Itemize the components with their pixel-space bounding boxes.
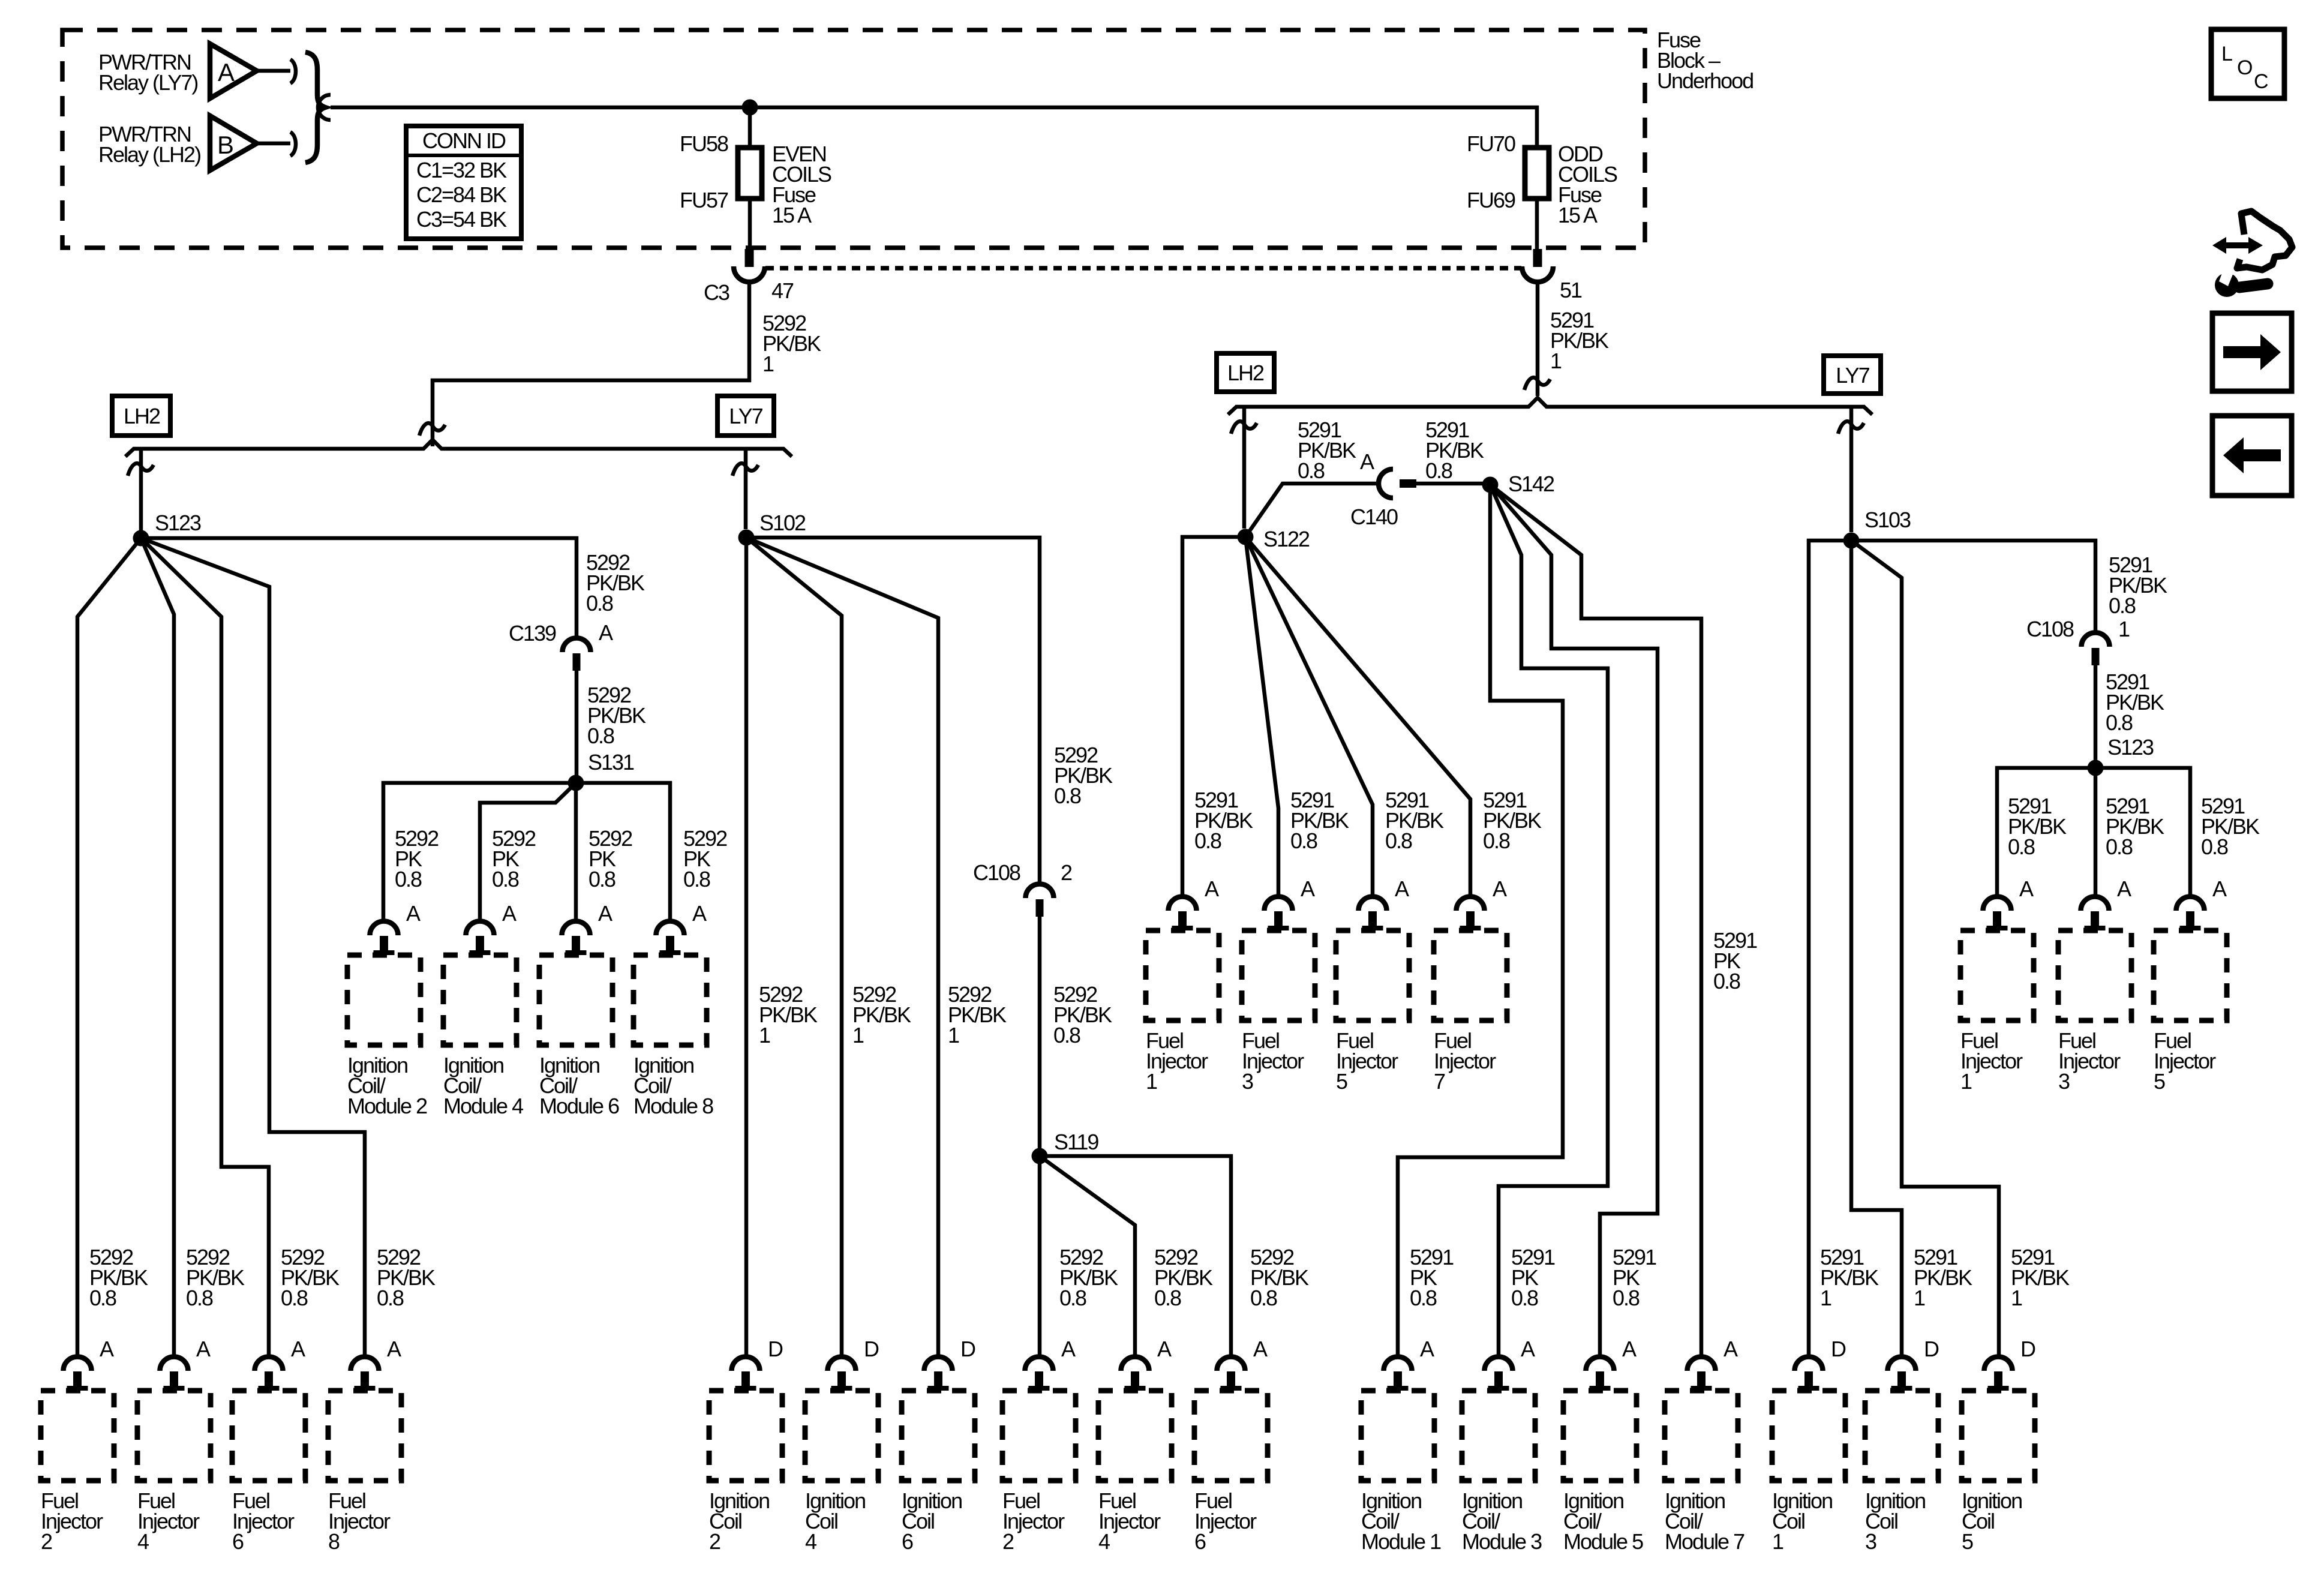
svg-text:A: A: [1205, 876, 1219, 901]
svg-text:0.8: 0.8: [1290, 828, 1317, 853]
wire S122 to C140: [1245, 484, 1379, 537]
svg-text:C3: C3: [704, 280, 729, 305]
svg-text:A: A: [1420, 1337, 1434, 1361]
ignition coil/module 2 box: [347, 955, 421, 1045]
svg-text:D: D: [2020, 1337, 2035, 1361]
svg-text:0.8: 0.8: [1250, 1286, 1277, 1310]
svg-text:A: A: [692, 901, 707, 926]
wire drop to S123: [139, 449, 143, 530]
icon LOC box: [2211, 29, 2284, 98]
svg-text:0.8: 0.8: [1154, 1286, 1181, 1310]
ignition coil 2 terminal D: [732, 1357, 760, 1391]
ignition coil/module 6 terminal A: [562, 921, 590, 955]
svg-text:A: A: [1061, 1337, 1076, 1361]
wire S102 to ignition coil 4: [746, 538, 842, 1356]
svg-text:S131: S131: [588, 750, 634, 775]
fuel injector 4 box: [137, 1391, 211, 1481]
wire S131 to ignition coil module 4: [480, 783, 576, 920]
relay B triangle: [210, 116, 257, 170]
svg-text:0.8: 0.8: [395, 867, 422, 891]
wire C139 to S131: [575, 671, 579, 777]
svg-text:Module 2: Module 2: [347, 1094, 427, 1118]
fuel injector 7 terminal A: [1457, 897, 1485, 930]
svg-text:D: D: [768, 1337, 783, 1361]
svg-text:FU69: FU69: [1467, 188, 1515, 212]
connector C3 pin 47: [734, 249, 765, 282]
svg-text:1: 1: [852, 1023, 864, 1047]
svg-text:A: A: [1724, 1337, 1738, 1361]
ignition coil 3 box: [1865, 1391, 1938, 1481]
left harness bus: [125, 440, 792, 457]
svg-text:1: 1: [1914, 1286, 1925, 1310]
fuel injector 1 right box: [1960, 930, 2034, 1020]
ignition coil 5 terminal D: [1984, 1357, 2013, 1391]
svg-text:0.8: 0.8: [492, 867, 519, 891]
svg-text:Module 5: Module 5: [1563, 1529, 1643, 1554]
svg-text:0.8: 0.8: [281, 1286, 308, 1310]
svg-text:O: O: [2237, 56, 2252, 79]
fuel injector 6 box: [232, 1391, 305, 1481]
svg-text:1: 1: [1146, 1069, 1157, 1094]
svg-text:Relay (LY7): Relay (LY7): [98, 70, 197, 95]
wire S131 to ignition coil module 6: [574, 783, 578, 920]
svg-text:0.8: 0.8: [1053, 1023, 1080, 1047]
svg-text:LH2: LH2: [1227, 361, 1264, 385]
ignition coil 1 terminal D: [1795, 1357, 1823, 1391]
svg-text:0.8: 0.8: [1385, 828, 1412, 853]
svg-text:A: A: [1493, 876, 1507, 901]
ignition coil/module 6 box: [539, 955, 612, 1045]
node S103 splice: [1843, 533, 1860, 549]
wire S123 to fuel injector 8: [141, 538, 365, 1356]
node tag LH2: [1217, 353, 1274, 392]
svg-text:A: A: [502, 901, 517, 926]
fuel injector 8 terminal A: [351, 1357, 379, 1391]
svg-text:A: A: [1157, 1337, 1172, 1361]
fuel injector 2 middle terminal A: [1025, 1357, 1053, 1391]
svg-text:S119: S119: [1054, 1130, 1098, 1154]
wire S123 to fuel injector 2: [77, 538, 141, 1356]
svg-text:3: 3: [2058, 1069, 2070, 1094]
fuse FU58/FU57 EVEN COILS: [738, 148, 762, 199]
svg-text:2: 2: [41, 1529, 52, 1554]
svg-text:CONN ID: CONN ID: [422, 128, 506, 153]
svg-text:S122: S122: [1263, 527, 1310, 551]
svg-text:C108: C108: [973, 860, 1020, 885]
svg-text:0.8: 0.8: [1483, 828, 1510, 853]
svg-text:0.8: 0.8: [377, 1286, 404, 1310]
svg-text:A: A: [406, 901, 421, 926]
fuel injector 1 box: [1146, 930, 1219, 1020]
svg-text:2: 2: [709, 1529, 720, 1554]
svg-text:0.8: 0.8: [1298, 458, 1325, 483]
svg-text:4: 4: [805, 1529, 816, 1554]
svg-text:C: C: [2254, 70, 2268, 93]
svg-text:1: 1: [1960, 1069, 1972, 1094]
svg-text:47: 47: [771, 278, 794, 303]
wire S122 to fuel injector 5: [1245, 537, 1373, 896]
svg-text:0.8: 0.8: [1425, 458, 1452, 483]
svg-text:Module 3: Module 3: [1462, 1529, 1542, 1554]
svg-text:Module 4: Module 4: [443, 1094, 523, 1118]
svg-text:FU70: FU70: [1467, 131, 1515, 156]
svg-text:A: A: [218, 58, 235, 86]
node S122 splice: [1238, 529, 1254, 545]
CONN ID table: [406, 126, 521, 239]
svg-text:8: 8: [328, 1529, 340, 1554]
svg-text:1: 1: [948, 1023, 959, 1047]
svg-text:A: A: [1301, 876, 1315, 901]
svg-text:D: D: [864, 1337, 879, 1361]
svg-text:5: 5: [1962, 1529, 1973, 1554]
svg-text:15 A: 15 A: [772, 203, 812, 227]
svg-text:S123: S123: [155, 511, 201, 535]
brace joining relays: [305, 52, 325, 163]
ignition coil 6 box: [902, 1391, 975, 1481]
fuel injector 8 box: [328, 1391, 401, 1481]
ignition coil/module 3 box: [1462, 1391, 1535, 1481]
wire S122 to fuel injector 3: [1245, 537, 1278, 896]
svg-text:1: 1: [1550, 349, 1562, 373]
wire S142 to ignition coil module 3: [1490, 485, 1608, 1356]
wire S123 to fuel injector 3 right: [2094, 768, 2098, 896]
svg-text:5: 5: [1336, 1069, 1347, 1094]
svg-text:A: A: [599, 620, 613, 645]
svg-text:A: A: [1395, 876, 1409, 901]
fuel injector 5 right box: [2154, 930, 2227, 1020]
svg-text:1: 1: [2011, 1286, 2022, 1310]
node S142 splice: [1482, 477, 1499, 493]
fuel injector 5 right terminal A: [2176, 897, 2205, 930]
svg-text:6: 6: [1194, 1529, 1206, 1554]
node S123 right splice: [2088, 760, 2104, 776]
fuel injector 3 box: [1242, 930, 1315, 1020]
ignition coil/module 7 terminal A: [1688, 1357, 1716, 1391]
wire S142 to ignition coil module 7: [1490, 485, 1701, 1356]
wire drop to S102: [744, 449, 748, 529]
wire relay B lead: [257, 142, 290, 146]
ignition coil 4 terminal D: [828, 1357, 856, 1391]
wire S123 to fuel injector 5 right: [2095, 768, 2190, 896]
svg-text:2: 2: [1002, 1529, 1014, 1554]
node tag LY7: [717, 396, 774, 436]
fuse FU70/FU69 ODD COILS: [1525, 148, 1549, 199]
wire S102 to ignition coil 6: [746, 538, 938, 1356]
relay A triangle: [210, 44, 257, 98]
svg-text:Relay (LH2): Relay (LH2): [98, 142, 200, 167]
svg-text:3: 3: [1865, 1529, 1876, 1554]
ignition coil/module 1 box: [1361, 1391, 1434, 1481]
wire S103 to ignition coil 3: [1851, 541, 1902, 1356]
wire C140 to S142: [1416, 482, 1489, 486]
svg-text:S102: S102: [759, 511, 806, 535]
wire 5291 PK/BK 1 from 51: [1536, 280, 1540, 396]
svg-text:4: 4: [137, 1529, 149, 1554]
fuel injector 4 middle terminal A: [1121, 1357, 1149, 1391]
fuel injector 2 middle box: [1002, 1391, 1076, 1481]
svg-text:A: A: [2117, 876, 2131, 901]
ignition coil 4 box: [805, 1391, 878, 1481]
wire S119 to fuel injector 4: [1040, 1156, 1135, 1356]
wire S122 to fuel injector 1: [1182, 537, 1245, 896]
svg-text:A: A: [196, 1337, 211, 1361]
svg-text:0.8: 0.8: [2109, 593, 2136, 618]
svg-text:0.8: 0.8: [1511, 1286, 1538, 1310]
wire S122 to fuel injector 7: [1245, 537, 1470, 896]
wire relay A lead: [257, 69, 290, 73]
svg-text:Underhood: Underhood: [1657, 68, 1753, 93]
svg-text:1: 1: [1772, 1529, 1783, 1554]
ignition coil/module 2 terminal A: [370, 921, 398, 955]
fuel injector 2 box: [41, 1391, 114, 1481]
svg-text:C3=54 BK: C3=54 BK: [416, 207, 507, 232]
node tag LY7: [1824, 356, 1881, 394]
ignition coil 1 box: [1772, 1391, 1845, 1481]
svg-text:LH2: LH2: [124, 404, 160, 428]
wire main feed from relays: [331, 107, 1537, 148]
ignition coil/module 1 terminal A: [1384, 1357, 1412, 1391]
ignition coil/module 8 terminal A: [656, 921, 684, 955]
wire drop to S103: [1849, 407, 1854, 532]
wire S119 to fuel injector 2: [1038, 1156, 1042, 1356]
svg-text:0.8: 0.8: [186, 1286, 213, 1310]
fuel injector 3 right terminal A: [2081, 897, 2109, 930]
wire S131 to ignition coil module 8: [576, 783, 670, 920]
svg-text:D: D: [960, 1337, 975, 1361]
ignition coil 2 box: [709, 1391, 782, 1481]
node S131 splice: [568, 775, 584, 791]
wire S142 to ignition coil module 1: [1398, 485, 1563, 1356]
svg-text:0.8: 0.8: [89, 1286, 116, 1310]
svg-text:C139: C139: [509, 621, 556, 646]
svg-text:Module 6: Module 6: [539, 1094, 619, 1118]
svg-text:A: A: [100, 1337, 114, 1361]
icon arrow left box: [2212, 416, 2292, 496]
svg-text:0.8: 0.8: [2201, 834, 2228, 859]
fuel injector 7 box: [1434, 930, 1507, 1020]
ignition coil/module 3 terminal A: [1485, 1357, 1513, 1391]
ignition coil 6 terminal D: [924, 1357, 953, 1391]
right harness bus: [1228, 398, 1872, 415]
svg-text:A: A: [291, 1337, 305, 1361]
svg-text:1: 1: [759, 1023, 770, 1047]
wire S123 to fuel injector 4: [141, 538, 174, 1356]
svg-text:0.8: 0.8: [1054, 784, 1081, 808]
svg-text:C1=32 BK: C1=32 BK: [416, 158, 507, 182]
svg-text:D: D: [1831, 1337, 1846, 1361]
connector C139 pin A: [563, 638, 591, 671]
wire S119 to fuel injector 6: [1040, 1156, 1231, 1356]
ignition coil/module 5 terminal A: [1586, 1357, 1614, 1391]
svg-text:0.8: 0.8: [1713, 969, 1740, 993]
svg-text:5: 5: [2154, 1069, 2165, 1094]
svg-text:7: 7: [1434, 1069, 1445, 1094]
connector pin 51: [1522, 249, 1553, 282]
svg-text:0.8: 0.8: [1613, 1286, 1640, 1310]
ignition coil/module 4 box: [443, 955, 517, 1045]
svg-text:1: 1: [1820, 1286, 1831, 1310]
fuel injector 5 terminal A: [1359, 897, 1387, 930]
wire S123 to C139: [141, 538, 577, 637]
svg-text:A: A: [2019, 876, 2034, 901]
ignition coil/module 5 box: [1563, 1391, 1637, 1481]
wire S131 to ignition coil module 2: [383, 783, 576, 920]
svg-text:FU58: FU58: [680, 131, 728, 156]
svg-text:Module 8: Module 8: [633, 1094, 713, 1118]
svg-text:B: B: [217, 131, 233, 159]
ignition coil/module 4 terminal A: [466, 921, 494, 955]
node S123 left splice: [133, 530, 149, 547]
fuse block dashed box: [62, 30, 1645, 248]
node junction on feed: [742, 100, 758, 116]
wire C108 to S123 right: [2094, 665, 2098, 762]
svg-text:0.8: 0.8: [2106, 834, 2133, 859]
svg-text:15 A: 15 A: [1558, 203, 1598, 227]
svg-text:Module 7: Module 7: [1665, 1529, 1744, 1554]
fuel injector 3 right box: [2058, 930, 2131, 1020]
svg-text:S142: S142: [1508, 472, 1554, 496]
fuel injector 2 terminal A: [64, 1357, 92, 1391]
fuel injector 1 terminal A: [1169, 897, 1197, 930]
fuel injector 6 middle box: [1194, 1391, 1268, 1481]
svg-text:S123: S123: [2107, 735, 2154, 760]
wire 5292 PK/BK 1 from C3: [433, 280, 749, 446]
wire S102 to C108: [746, 538, 1040, 882]
fuel injector 6 middle terminal A: [1217, 1357, 1245, 1391]
connector C108 pin 2: [1026, 884, 1054, 917]
icon arrow right box: [2212, 313, 2292, 391]
svg-text:FU57: FU57: [680, 188, 728, 212]
svg-text:LY7: LY7: [1836, 363, 1869, 388]
svg-text:6: 6: [902, 1529, 913, 1554]
node S119 splice: [1032, 1148, 1048, 1164]
svg-text:A: A: [2212, 876, 2227, 901]
wire S103 to ignition coil 5: [1851, 541, 1999, 1356]
svg-text:C108: C108: [2026, 617, 2074, 641]
svg-text:1: 1: [762, 352, 774, 376]
svg-text:S103: S103: [1864, 508, 1911, 532]
fuel injector 4 terminal A: [160, 1357, 188, 1391]
connector C140 pin A: [1379, 469, 1393, 498]
svg-text:D: D: [1924, 1337, 1939, 1361]
svg-text:1: 1: [2118, 617, 2130, 641]
svg-text:3: 3: [1242, 1069, 1253, 1094]
fuel injector 4 middle box: [1098, 1391, 1172, 1481]
svg-text:Module 1: Module 1: [1361, 1529, 1441, 1554]
svg-text:0.8: 0.8: [586, 591, 613, 616]
svg-text:LY7: LY7: [729, 404, 762, 428]
connector face dotted line: [765, 266, 1521, 271]
wire drop to S122: [1242, 407, 1247, 529]
node tag LH2: [112, 396, 170, 436]
svg-text:0.8: 0.8: [1194, 828, 1221, 853]
svg-text:0.8: 0.8: [683, 867, 710, 891]
svg-text:0.8: 0.8: [588, 867, 615, 891]
svg-text:C140: C140: [1350, 505, 1398, 529]
svg-text:C2=84 BK: C2=84 BK: [416, 182, 507, 207]
svg-text:0.8: 0.8: [587, 724, 614, 748]
fuel injector 6 terminal A: [255, 1357, 283, 1391]
svg-text:0.8: 0.8: [1059, 1286, 1086, 1310]
ignition coil 3 terminal D: [1888, 1357, 1916, 1391]
fuel injector 3 terminal A: [1265, 897, 1293, 930]
ignition coil 5 box: [1962, 1391, 2035, 1481]
svg-text:51: 51: [1560, 278, 1582, 302]
svg-text:A: A: [1253, 1337, 1268, 1361]
wire S123 to fuel injector 6: [141, 538, 269, 1356]
node S102 splice: [738, 530, 755, 546]
wire S123 to fuel injector 1 right: [1997, 768, 2095, 896]
icon wrench/arrows: [2212, 211, 2292, 297]
wire fuse 1 taps: [748, 107, 752, 249]
svg-text:4: 4: [1098, 1529, 1110, 1554]
wire C108 to S119: [1038, 917, 1042, 1150]
svg-text:6: 6: [232, 1529, 244, 1554]
svg-text:0.8: 0.8: [1410, 1286, 1437, 1310]
ignition coil/module 7 box: [1665, 1391, 1738, 1481]
svg-text:A: A: [387, 1337, 401, 1361]
wire S142 to ignition coil module 5: [1490, 485, 1658, 1356]
fuel injector 1 right terminal A: [1983, 897, 2011, 930]
connector C108 pin 1: [2082, 633, 2110, 665]
wire fuse 2 lower tap: [1535, 199, 1539, 249]
svg-text:A: A: [1521, 1337, 1535, 1361]
svg-text:0.8: 0.8: [2106, 710, 2133, 735]
wire S103 to ignition coil 1: [1809, 541, 1851, 1356]
svg-text:0.8: 0.8: [2008, 834, 2035, 859]
svg-text:L: L: [2221, 43, 2232, 65]
wire S103 to C108: [1851, 541, 2095, 631]
svg-text:A: A: [1622, 1337, 1637, 1361]
wire S102 to ignition coil 2: [744, 538, 749, 1356]
svg-text:A: A: [598, 901, 612, 926]
svg-text:A: A: [1360, 449, 1374, 474]
svg-text:2: 2: [1061, 860, 1072, 885]
ignition coil/module 8 box: [633, 955, 707, 1045]
fuel injector 5 box: [1336, 930, 1409, 1020]
